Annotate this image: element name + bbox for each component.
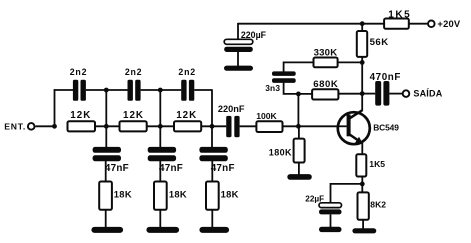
ground (stage 3) bbox=[199, 227, 229, 233]
resistor 680K bbox=[312, 89, 338, 99]
capacitor 470nF bbox=[375, 81, 389, 106]
wire: 18K #3 to ground bbox=[211, 210, 213, 228]
wire: emitter down to 1K5 bbox=[361, 143, 363, 154]
wire: 18K #2 to ground bbox=[159, 210, 161, 228]
wire: 3n3 bottom down-corner to node F and 680K bbox=[284, 83, 313, 94]
wire: C1 to node B bbox=[86, 89, 106, 91]
wire: node A up to top feedback rail bbox=[54, 89, 56, 127]
input terminal ENT bbox=[28, 123, 35, 130]
capacitor 47nF #2 bbox=[148, 147, 176, 161]
wire: node E vertical up to node F bbox=[297, 94, 299, 126]
wire: 3n3 top up-corner to 330K bbox=[284, 62, 314, 71]
wire: 1K5 to +20V terminal bbox=[409, 23, 428, 25]
wire: +20V top rail bbox=[238, 23, 384, 25]
wire: 220uF to ground bbox=[237, 52, 239, 67]
svg-text:3n3: 3n3 bbox=[265, 83, 280, 93]
capacitor 2n2 #2 bbox=[128, 80, 141, 101]
capacitor 47nF #3 bbox=[199, 147, 227, 161]
svg-text:220µF: 220µF bbox=[241, 30, 267, 40]
svg-text:56K: 56K bbox=[370, 37, 389, 48]
wire: C4 to 18K #1 bbox=[105, 161, 107, 182]
wire: node B vertical link bbox=[105, 90, 107, 126]
wire: 470nF to SAIDA terminal bbox=[389, 93, 402, 95]
svg-text:2n2: 2n2 bbox=[178, 67, 196, 77]
ground (22uF) bbox=[319, 227, 342, 232]
capacitor 220nF bbox=[226, 116, 239, 137]
wire: R2 to node C bbox=[147, 125, 174, 127]
node E junction (base node) bbox=[296, 124, 301, 129]
wire: 100K to base node E bbox=[283, 125, 348, 127]
node B junction (top) bbox=[104, 88, 109, 93]
resistor 12K #1 bbox=[68, 121, 96, 131]
resistor 100K bbox=[256, 121, 282, 132]
resistor 56K bbox=[357, 31, 367, 57]
node I junction (56K / top rail) bbox=[360, 21, 365, 26]
wire: node C to C3 bbox=[160, 89, 181, 91]
resistor 18K #2 bbox=[154, 182, 167, 210]
capacitor 22uF (polarized) bbox=[319, 203, 342, 215]
svg-text:8K2: 8K2 bbox=[370, 200, 386, 210]
resistor 18K #1 bbox=[99, 182, 112, 210]
wire: node D down to C6 bbox=[211, 126, 213, 147]
svg-text:330K: 330K bbox=[314, 47, 338, 58]
resistor 180K bbox=[294, 139, 305, 163]
capacitor 2n2 #3 bbox=[181, 80, 194, 101]
node C junction (rail) bbox=[158, 124, 163, 129]
wire: top rail corner to C1 bbox=[54, 89, 73, 91]
svg-text:1K5: 1K5 bbox=[388, 10, 411, 21]
terminal SAIDA bbox=[403, 90, 410, 97]
wire: node C vertical link bbox=[159, 90, 161, 126]
wire: node E down to 180K bbox=[298, 126, 300, 138]
wire: top rail to 56K bbox=[361, 24, 363, 31]
svg-text:12K: 12K bbox=[70, 110, 91, 121]
wire: node B down to C4 bbox=[105, 126, 107, 147]
svg-text:ENT.: ENT. bbox=[4, 122, 26, 132]
svg-text:2n2: 2n2 bbox=[70, 67, 88, 77]
wire: 8K2 to ground bbox=[362, 220, 364, 229]
node G junction (330K / 56K) bbox=[360, 60, 365, 65]
resistor 12K #3 bbox=[174, 121, 201, 131]
svg-text:1K5: 1K5 bbox=[369, 159, 385, 169]
resistor 18K #3 bbox=[206, 182, 219, 210]
node H junction (collector / 470nF tap) bbox=[360, 91, 365, 96]
capacitor 3n3 bbox=[272, 71, 296, 82]
wire: node J left to 22uF bbox=[331, 184, 363, 203]
transistor Q1 BC549 bbox=[338, 110, 370, 144]
svg-text:+20V: +20V bbox=[437, 18, 461, 29]
svg-text:12K: 12K bbox=[123, 110, 144, 121]
wire: C6 to 18K #3 bbox=[211, 161, 213, 182]
capacitor 220uF (polarized) bbox=[224, 39, 253, 52]
resistor 1K5 (emitter) bbox=[356, 154, 366, 176]
capacitor 2n2 #1 bbox=[73, 80, 86, 101]
svg-text:470nF: 470nF bbox=[370, 72, 401, 83]
wire: R1 to node B bbox=[95, 125, 120, 127]
svg-text:18K: 18K bbox=[114, 189, 132, 200]
resistor 8K2 bbox=[358, 192, 369, 219]
wire: node C down to C5 bbox=[159, 126, 161, 147]
wire: 1K5 emitter to 8K2 bbox=[361, 177, 363, 193]
node J junction (emitter / 22uF) bbox=[360, 182, 365, 187]
capacitor 47nF #1 bbox=[93, 147, 121, 161]
wire: 220nF to 100K bbox=[240, 125, 257, 127]
ground (180K) bbox=[287, 174, 312, 180]
node F junction (680K / 3n3) bbox=[296, 92, 301, 97]
svg-text:47nF: 47nF bbox=[105, 163, 129, 174]
wire: 18K #1 to ground bbox=[105, 210, 107, 228]
wire: 680K to collector node H bbox=[338, 93, 362, 95]
ground (stage 1) bbox=[91, 227, 123, 233]
wire: C5 to 18K #2 bbox=[159, 161, 161, 182]
svg-text:BC549: BC549 bbox=[373, 122, 399, 132]
resistor 1K5 (supply) bbox=[384, 19, 409, 29]
wire: C2 to node C bbox=[141, 89, 161, 91]
svg-text:180K: 180K bbox=[269, 147, 292, 157]
svg-text:100K: 100K bbox=[256, 111, 277, 121]
wire: top rail corner down to 220uF bbox=[237, 23, 239, 40]
node C junction (top) bbox=[158, 88, 163, 93]
wire: node B to C2 bbox=[106, 89, 127, 91]
svg-text:18K: 18K bbox=[221, 189, 239, 200]
svg-text:22µF: 22µF bbox=[305, 195, 324, 204]
wire: top-right corner down to node D bbox=[211, 89, 213, 126]
wire: C3 to top-right corner bbox=[194, 89, 212, 91]
wire: 22uF to ground bbox=[330, 214, 332, 227]
svg-text:SAÍDA: SAÍDA bbox=[413, 89, 442, 99]
node D junction bbox=[210, 124, 215, 129]
wire: node H to 470nF bbox=[362, 93, 375, 95]
wire: ENT terminal to node A bbox=[35, 125, 54, 127]
terminal +20V bbox=[428, 21, 435, 28]
resistor 12K #2 bbox=[120, 121, 147, 131]
svg-text:47nF: 47nF bbox=[211, 163, 235, 174]
svg-text:18K: 18K bbox=[169, 189, 187, 200]
wire: 330K to collector line bbox=[338, 61, 363, 63]
resistor 330K bbox=[314, 58, 338, 68]
ground (stage 2) bbox=[146, 227, 179, 233]
svg-text:220nF: 220nF bbox=[218, 104, 245, 114]
svg-text:680K: 680K bbox=[313, 79, 338, 90]
node A junction bbox=[52, 124, 57, 129]
ground (220uF) bbox=[224, 66, 253, 71]
svg-text:47nF: 47nF bbox=[159, 163, 183, 174]
node B junction (rail) bbox=[104, 124, 109, 129]
wire: 180K to ground bbox=[298, 163, 300, 175]
svg-text:12K: 12K bbox=[176, 110, 197, 121]
wire: R3 to node D bbox=[201, 125, 226, 127]
wire: 56K down collector line to transistor bbox=[361, 57, 363, 111]
svg-text:2n2: 2n2 bbox=[125, 67, 143, 77]
ground (8K2) bbox=[352, 228, 376, 233]
